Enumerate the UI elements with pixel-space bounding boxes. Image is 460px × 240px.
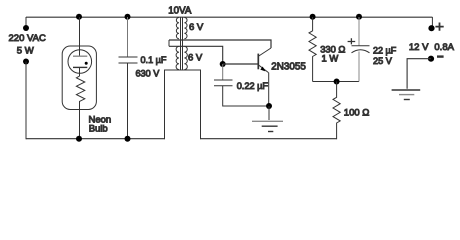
transformer T1 primary winding upper [176,18,179,39]
node junction bottom rail / C1 [125,136,131,142]
svg-text:6 V: 6 V [189,22,204,33]
resistor R1 330 ohm 1W [309,17,316,82]
wire transformer bottom bracket [165,70,201,139]
svg-text:10VA: 10VA [168,6,192,17]
svg-text:12 V: 12 V [409,42,429,53]
svg-text:0.8A: 0.8A [434,42,454,53]
wire top rail [26,16,432,18]
label 2N3055 [271,62,306,73]
wire emitter down [268,73,270,106]
node DC - terminal [428,56,434,62]
wire C1 top stub [127,17,129,57]
label 12 V 0.8A [409,42,455,53]
svg-text:0.1 µF: 0.1 µF [141,55,167,65]
wire left side down to bottom rail [25,62,27,140]
node junction top rail / neon bulb [76,14,82,20]
label 100 ohm [344,108,370,119]
node junction R1/R2/C3 [334,79,340,85]
node junction top rail / C3 [356,14,362,20]
wire tap B to base node [169,46,223,64]
svg-text:5 W: 5 W [17,46,34,57]
capacitor C3 22uF polarized [348,38,370,53]
svg-text:25 V: 25 V [373,56,393,66]
label 0.22 uF [237,81,269,91]
wire top rail right corner to + terminal [431,17,433,28]
wire C2 bottom to emitter node [223,86,269,106]
wire emitter ground stub [268,106,270,120]
label - [437,55,444,57]
wire - terminal to ground [407,59,431,89]
label + [435,23,443,31]
capacitor C1 0.1uF 630V [119,57,138,63]
resistor R2 100 ohm [333,82,340,140]
node emitter junction [266,103,272,109]
svg-text:Bulb: Bulb [89,124,108,135]
svg-text:220 VAC: 220 VAC [9,33,46,44]
wire neon bulb bottom stub [79,110,81,140]
node AC input bottom terminal [23,59,29,65]
svg-text:6 V: 6 V [188,53,203,64]
label 6 V lower [188,53,203,64]
svg-text:100 Ω: 100 Ω [344,108,370,119]
transformer T1 primary winding lower [176,46,179,69]
label 10VA [168,6,192,17]
svg-text:2N3055: 2N3055 [271,62,306,73]
label 0.1 uF 630 V [136,55,167,79]
wire bottom rail right (ground net) [201,138,337,140]
svg-text:630 V: 630 V [136,69,161,79]
node junction top rail / R1 [310,14,316,20]
node AC input top terminal [23,25,29,31]
resistor inside neon bulb [76,67,84,109]
node base junction [220,61,226,67]
wire center tap jog left [168,40,170,46]
wire C3 bottom stub [358,52,360,82]
wire base node to base [223,63,258,65]
neon bulb envelope [62,46,96,110]
wire bottom rail left [26,138,165,140]
capacitor C2 0.22uF [214,80,233,86]
label 22 uF 25 V [373,46,397,66]
svg-text:1 W: 1 W [322,53,339,64]
wire top-left stub to AC terminal [25,17,27,28]
node junction top rail / C1 [125,14,131,20]
label Neon Bulb [89,114,112,134]
neon bulb lamp circle [68,50,92,74]
transformer T1 core [181,17,183,70]
wire C2 top stub [222,64,224,80]
transformer T1 secondary winding lower 6V [184,46,187,69]
ground emitter [252,121,283,131]
ground right [392,90,421,100]
wire C3 top stub [358,17,360,46]
neon bulb electrodes [73,56,88,67]
svg-text:22 µF: 22 µF [373,46,397,56]
svg-text:0.22 µF: 0.22 µF [237,81,269,91]
wire tap A to collector [169,40,271,48]
transistor Q1 2N3055 [258,48,271,73]
wire R1 bottom to C3 bottom [313,81,359,83]
transformer T1 secondary winding upper 6V [184,18,187,39]
label 330 ohm 1 W [320,43,345,63]
label 6 V upper [189,22,204,33]
wire C1 bottom stub [127,63,129,139]
label 220 VAC 5 W [9,33,46,57]
wire neon bulb top stub [79,17,81,56]
node junction bottom rail / neon bulb [76,136,82,142]
node DC + terminal [428,25,434,31]
